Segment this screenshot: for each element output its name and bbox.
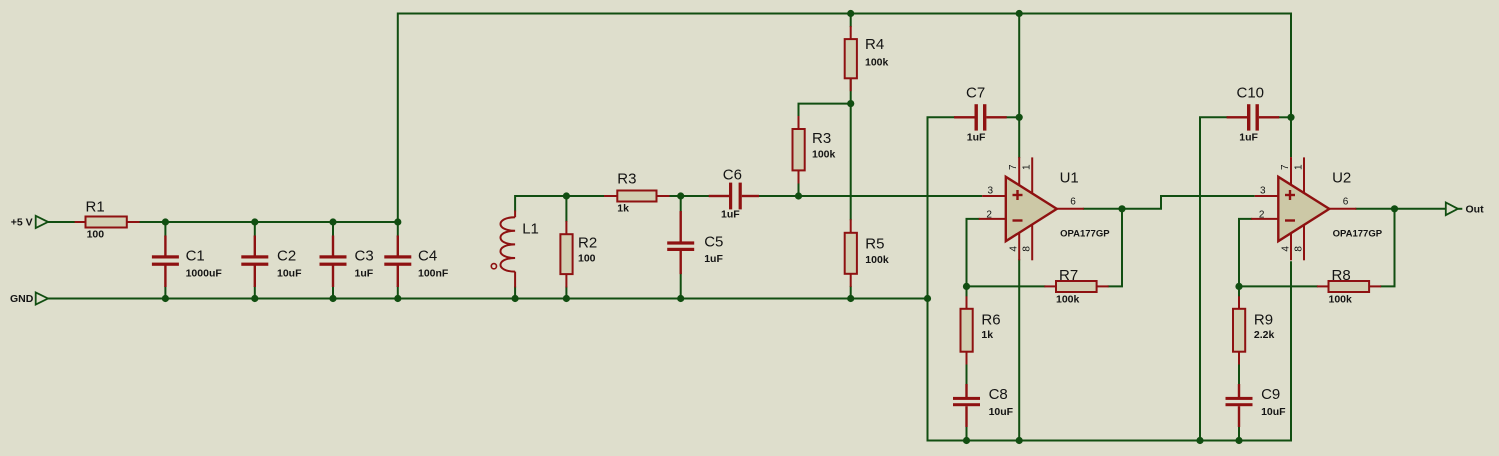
wire C3 top stub	[332, 221, 334, 237]
junction bottom rail C9	[1235, 437, 1242, 444]
junction U1 pin2 R6 R7	[963, 283, 970, 290]
junction U2 pin2 R9 R8	[1235, 283, 1242, 290]
wire U2 output to Out terminal	[1355, 208, 1447, 210]
svg-text:Out: Out	[1466, 204, 1485, 216]
svg-text:100k: 100k	[1056, 293, 1080, 305]
svg-text:C6: C6	[723, 167, 742, 184]
svg-text:C7: C7	[966, 85, 985, 102]
junction signal R2 top	[563, 192, 570, 199]
op-amp U2 minus symbol	[1285, 219, 1295, 221]
capacitor C4	[384, 236, 411, 288]
svg-text:C5: C5	[704, 234, 723, 251]
wire R5 bottom stub	[850, 286, 852, 300]
wire R7 row right to output drop	[1108, 208, 1122, 287]
junction GND C1	[162, 295, 169, 302]
wire R3 to C6	[669, 195, 710, 197]
svg-text:1: 1	[1022, 164, 1033, 170]
wire C2 bottom stub	[254, 286, 256, 300]
capacitor C3	[320, 236, 347, 288]
svg-text:U2: U2	[1332, 169, 1351, 186]
junction bottom rail U1 pin4	[1016, 437, 1023, 444]
wire C2 top stub	[254, 221, 256, 237]
svg-text:100: 100	[578, 252, 596, 264]
capacitor C8	[953, 384, 980, 427]
svg-text:R7: R7	[1059, 267, 1078, 284]
junction GND L1	[511, 295, 518, 302]
wire C7 right to pin7 column	[1006, 116, 1021, 118]
wire C3 bottom stub	[332, 286, 334, 300]
capacitor C6	[709, 183, 759, 210]
junction signal C5 top	[677, 192, 684, 199]
wire R1 to C4 node (+5V rail)	[139, 221, 399, 223]
svg-text:100k: 100k	[865, 56, 889, 68]
terminal input +5V	[36, 216, 48, 228]
wire U1 pin4 to bottom rail	[1018, 259, 1020, 441]
junction GND C4	[394, 295, 401, 302]
svg-text:R3: R3	[812, 130, 831, 147]
wire node Y down to R5	[850, 103, 852, 221]
svg-text:100k: 100k	[812, 148, 836, 160]
wire C7 left column	[928, 117, 1292, 440]
svg-text:R6: R6	[981, 312, 1000, 329]
junction C7 pin7 column	[1016, 114, 1023, 121]
junction GND R5	[847, 295, 854, 302]
resistor R8	[1317, 281, 1381, 292]
svg-text:1k: 1k	[617, 203, 629, 215]
svg-text:7: 7	[1008, 164, 1019, 170]
op-amp U2	[1251, 157, 1356, 260]
wire C1 top stub	[164, 221, 166, 237]
svg-text:1uF: 1uF	[967, 132, 986, 144]
junction +5V C3	[329, 218, 336, 225]
svg-text:2.2k: 2.2k	[1254, 329, 1275, 341]
resistor R3 100k vertical	[793, 116, 805, 184]
svg-text:R5: R5	[865, 235, 884, 252]
svg-text:8: 8	[1022, 246, 1033, 252]
junction bottom rail C10 column	[1196, 437, 1203, 444]
svg-text:R1: R1	[86, 199, 105, 216]
junction +5V C1	[162, 218, 169, 225]
op-amp U1 minus symbol	[1013, 219, 1023, 221]
wire U2 pin2 feedback column	[1239, 219, 1252, 288]
wire R2 top stub	[565, 195, 567, 222]
svg-text:4: 4	[1280, 246, 1291, 252]
svg-text:C10: C10	[1237, 85, 1265, 102]
inductor L1 polarity circle	[491, 264, 496, 269]
svg-text:2: 2	[986, 210, 992, 221]
wire U1 pin2 feedback column	[967, 219, 980, 288]
capacitor C10	[1227, 104, 1280, 130]
svg-text:1uF: 1uF	[355, 268, 374, 280]
junction GND C5	[677, 295, 684, 302]
wire C4 top stub	[397, 221, 399, 237]
svg-text:C9: C9	[1261, 386, 1280, 403]
svg-text:100nF: 100nF	[418, 268, 449, 280]
wire GND rail	[48, 298, 928, 300]
svg-text:100k: 100k	[865, 254, 889, 266]
svg-text:100: 100	[87, 229, 105, 241]
svg-text:1k: 1k	[981, 329, 993, 341]
svg-text:10uF: 10uF	[1261, 406, 1286, 418]
capacitor C5	[667, 211, 694, 274]
svg-text:1uF: 1uF	[721, 209, 740, 221]
svg-text:+5 V: +5 V	[11, 216, 33, 228]
wire C10 right to U2 pin7 column	[1278, 116, 1292, 118]
svg-text:1uF: 1uF	[1239, 132, 1258, 144]
junction GND C3	[329, 295, 336, 302]
svg-text:2: 2	[1259, 210, 1265, 221]
svg-text:10uF: 10uF	[277, 268, 302, 280]
svg-text:6: 6	[1070, 197, 1076, 208]
inductor L1	[500, 211, 515, 288]
wire C5 top stub	[680, 195, 682, 212]
wire R6 top stub	[966, 285, 968, 297]
wire R6 to C8	[966, 364, 968, 386]
capacitor C1	[152, 236, 179, 288]
resistor R1	[75, 217, 140, 228]
junction +5V C2	[251, 218, 258, 225]
svg-text:C2: C2	[277, 247, 296, 264]
wire C5 bottom stub	[680, 273, 682, 299]
wire C6 to U1 pin3	[758, 195, 982, 197]
wire R7 row left	[966, 285, 1046, 287]
svg-text:R4: R4	[865, 36, 884, 53]
junction signal C6 R3v	[795, 192, 802, 199]
svg-text:8: 8	[1293, 246, 1304, 252]
wire top supply rail	[398, 14, 1291, 223]
junction U1 output	[1118, 205, 1125, 212]
resistor R5	[845, 219, 857, 287]
capacitor C9	[1226, 384, 1253, 427]
wire R9 to C9	[1238, 364, 1240, 386]
junction GND C2	[251, 295, 258, 302]
junction U2 output	[1391, 205, 1398, 212]
svg-text:C8: C8	[989, 386, 1008, 403]
svg-text:C1: C1	[186, 247, 205, 264]
resistor R3 1k horizontal	[604, 191, 670, 202]
wire R2 bottom stub	[565, 287, 567, 300]
wire +5V input to R1	[48, 221, 76, 223]
capacitor C2	[241, 236, 268, 288]
junction GND tee C7 column	[924, 295, 931, 302]
junction top rail R4	[847, 10, 854, 17]
capacitor C7	[954, 104, 1007, 130]
wire U1 pin7 column	[1018, 13, 1020, 159]
junction +5V C4 corner	[394, 218, 401, 225]
resistor R4	[845, 26, 857, 91]
svg-text:3: 3	[988, 186, 994, 197]
terminal output Out	[1446, 203, 1463, 216]
wire C1 bottom stub	[164, 286, 166, 300]
svg-text:OPA177GP: OPA177GP	[1333, 228, 1383, 239]
resistor R2	[560, 221, 572, 288]
svg-text:R3: R3	[617, 171, 636, 188]
wire R4 bottom to node Y	[850, 77, 852, 104]
svg-text:10uF: 10uF	[989, 406, 1014, 418]
svg-text:7: 7	[1280, 164, 1291, 170]
svg-text:R2: R2	[578, 235, 597, 252]
svg-text:R9: R9	[1254, 312, 1273, 329]
wire C9 bottom stub	[1238, 426, 1240, 442]
wire R9 top stub	[1238, 285, 1240, 297]
wire R8 row left	[1238, 285, 1318, 287]
resistor R9	[1233, 296, 1245, 364]
svg-text:4: 4	[1009, 246, 1020, 252]
svg-text:OPA177GP: OPA177GP	[1060, 228, 1110, 239]
wire node Y horizontal R3v to R4	[799, 104, 852, 117]
junction C10 U2 pin7 column	[1287, 114, 1294, 121]
junction GND R2	[563, 295, 570, 302]
junction top rail U1 pin7	[1016, 10, 1023, 17]
svg-text:1000uF: 1000uF	[186, 268, 223, 280]
svg-text:C4: C4	[418, 247, 437, 264]
terminal input GND	[36, 292, 48, 304]
svg-text:6: 6	[1343, 197, 1349, 208]
svg-text:U1: U1	[1060, 169, 1079, 186]
op-amp U1	[979, 157, 1084, 260]
wire R8 row right to output drop	[1380, 208, 1394, 287]
wire C10 left column	[1200, 117, 1228, 441]
svg-text:1uF: 1uF	[704, 253, 723, 265]
wire R3v bottom stub	[798, 183, 800, 198]
svg-text:C3: C3	[355, 247, 374, 264]
svg-text:R8: R8	[1332, 267, 1351, 284]
wire R4 top stub	[850, 13, 852, 28]
op-amp U2 plus symbol	[1285, 190, 1295, 200]
wire U1 output to U2 pin3	[1083, 196, 1255, 209]
svg-text:L1: L1	[522, 221, 539, 238]
op-amp U1 plus symbol	[1013, 190, 1023, 200]
svg-text:GND: GND	[10, 293, 34, 305]
svg-text:3: 3	[1260, 186, 1266, 197]
junction bottom rail C8	[963, 437, 970, 444]
wire C8 bottom stub	[966, 426, 968, 442]
wire L1 bottom stub	[514, 287, 516, 300]
wire C4 bottom stub	[397, 286, 399, 300]
svg-text:1: 1	[1293, 164, 1304, 170]
svg-text:100k: 100k	[1329, 293, 1353, 305]
wire L1 top to signal node	[515, 196, 605, 212]
junction node Y R4 R3 R5	[847, 100, 854, 107]
resistor R7	[1044, 281, 1108, 292]
resistor R6	[961, 296, 973, 364]
